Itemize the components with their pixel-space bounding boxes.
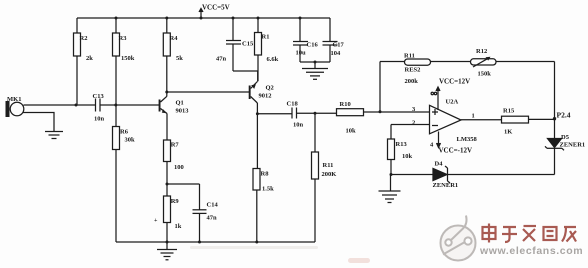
resistor R15 — [502, 108, 529, 136]
svg-text:www.elecfans.com: www.elecfans.com — [479, 245, 583, 257]
svg-text:VCC=5V: VCC=5V — [202, 4, 230, 12]
resistor R1 — [255, 17, 279, 64]
capacitor C18 — [257, 101, 303, 129]
svg-text:C14: C14 — [207, 202, 219, 209]
svg-text:R2: R2 — [80, 35, 88, 42]
wire Q2 emitter — [257, 71, 259, 82]
svg-text:P2.4: P2.4 — [557, 111, 571, 120]
wire R7 to C14 — [167, 183, 200, 185]
capacitor C15 — [216, 17, 254, 72]
resistor R10 — [337, 101, 364, 135]
svg-text:R9: R9 — [171, 198, 180, 205]
svg-text:R8: R8 — [261, 171, 270, 178]
svg-text:10k: 10k — [402, 153, 413, 160]
capacitor C14 — [193, 184, 219, 242]
wire R9 bottom — [166, 223, 168, 243]
wire D5 bottom — [554, 148, 556, 174]
wire top power rail — [77, 17, 330, 19]
wire R2 bottom — [76, 56, 78, 105]
resistor R13 — [388, 125, 430, 161]
transistor Q2 — [249, 82, 274, 104]
svg-text:6.6k: 6.6k — [267, 56, 279, 63]
svg-text:1.5k: 1.5k — [262, 186, 274, 193]
watermark characters — [483, 224, 577, 243]
wire R7 bottom — [166, 162, 169, 197]
wire mic signal — [24, 104, 96, 107]
wire R10 to op-amp — [364, 110, 430, 113]
wire R12 to right — [496, 61, 555, 63]
svg-text:ZENER1: ZENER1 — [433, 182, 459, 189]
resistor R7 — [164, 140, 184, 171]
resistor R8 — [253, 169, 274, 193]
wire bottom rail — [116, 241, 315, 244]
wire Q2 collector — [256, 103, 259, 169]
svg-text:C15: C15 — [242, 41, 254, 48]
wire R11 bottom — [314, 179, 316, 242]
wire feedback left — [379, 62, 381, 112]
wire C15 R1 bottom — [233, 55, 258, 81]
wire C18 to R10 — [297, 112, 337, 115]
wire Q1 emitter — [166, 114, 168, 141]
wire right column — [554, 62, 556, 119]
resistor R2 — [74, 18, 94, 62]
wire feedback top left — [380, 61, 405, 63]
pin 1 — [472, 113, 475, 120]
wire R6 bottom — [115, 150, 117, 243]
wire mic return — [23, 113, 55, 132]
svg-text:D4: D4 — [435, 161, 444, 168]
svg-text:9013: 9013 — [176, 108, 190, 115]
power VCC=5V — [199, 4, 230, 20]
transistor Q1 — [159, 96, 190, 114]
pin 8 — [431, 92, 437, 94]
resistor R3 — [113, 17, 135, 63]
svg-text:47n: 47n — [207, 215, 218, 222]
wire Q1 to Q2 base — [167, 91, 249, 93]
svg-text:R13: R13 — [396, 141, 408, 148]
pin 2 — [412, 120, 415, 127]
resistor R9 — [154, 196, 182, 230]
node P2.4 — [553, 111, 571, 121]
svg-text:Q2: Q2 — [266, 85, 274, 92]
potentiometer R12 — [471, 48, 497, 78]
wire R11 to R12 — [431, 61, 471, 63]
svg-text:ZENER1: ZENER1 — [560, 142, 586, 149]
svg-text:Q1: Q1 — [176, 100, 184, 107]
svg-text:10n: 10n — [293, 122, 304, 129]
svg-text:R4: R4 — [170, 35, 179, 42]
svg-text:U2A: U2A — [446, 99, 459, 106]
svg-text:9012: 9012 — [259, 93, 272, 100]
power VCC=-12V pin 4 — [430, 132, 472, 155]
svg-text:10n: 10n — [94, 116, 105, 123]
svg-text:47n: 47n — [216, 56, 227, 63]
pin 3 — [412, 106, 416, 113]
wire R8 bottom — [256, 190, 258, 242]
svg-text:R11: R11 — [323, 162, 334, 169]
svg-text:2: 2 — [412, 120, 415, 127]
svg-text:150k: 150k — [478, 71, 492, 78]
capacitor C13 — [93, 93, 105, 123]
resistor R4 — [163, 17, 183, 63]
watermark url — [479, 245, 583, 257]
wire R13 bottom — [390, 160, 393, 177]
op-amp U2A — [430, 99, 478, 144]
resistor R11 vertical — [312, 113, 337, 179]
ground bottom — [157, 242, 177, 260]
wire D4 to right — [448, 174, 555, 176]
svg-text:150k: 150k — [121, 55, 135, 62]
svg-text:4: 4 — [430, 142, 434, 149]
zener D5 — [545, 119, 585, 151]
svg-text:5k: 5k — [176, 55, 183, 62]
svg-text:R6: R6 — [120, 129, 129, 136]
svg-text:2k: 2k — [86, 55, 93, 62]
resistor R6 — [113, 105, 136, 150]
svg-text:VCC=-12V: VCC=-12V — [439, 147, 473, 155]
svg-text:200K: 200K — [322, 171, 337, 178]
capacitor C16 — [293, 17, 318, 63]
svg-text:VCC=12V: VCC=12V — [439, 78, 470, 86]
svg-text:30k: 30k — [125, 137, 136, 144]
svg-text:10k: 10k — [346, 128, 357, 135]
svg-text:R15: R15 — [503, 108, 515, 115]
svg-text:C16: C16 — [307, 42, 319, 49]
svg-text:1k: 1k — [175, 223, 182, 230]
wire C13 to Q1 base — [100, 104, 159, 107]
svg-text:104: 104 — [331, 50, 342, 57]
svg-text:R12: R12 — [476, 48, 487, 55]
svg-text:R1: R1 — [262, 34, 270, 41]
watermark logo — [441, 216, 476, 261]
svg-text:1K: 1K — [504, 129, 512, 136]
wire op-amp output — [461, 119, 502, 121]
svg-text:RES2: RES2 — [405, 67, 421, 74]
zener D4 — [391, 161, 458, 190]
svg-text:100: 100 — [174, 164, 184, 171]
ground under MK1 — [45, 132, 63, 139]
svg-text:D5: D5 — [561, 134, 570, 141]
svg-text:C17: C17 — [333, 42, 345, 49]
wire Q1 collector — [165, 56, 168, 96]
ground under R13 — [379, 175, 401, 203]
svg-text:200k: 200k — [405, 78, 419, 85]
svg-text:10u: 10u — [296, 50, 307, 57]
wire R3 bottom — [115, 56, 117, 105]
svg-text:R7: R7 — [171, 142, 180, 149]
microphone MK1 — [6, 96, 24, 117]
scan smudge — [190, 246, 370, 263]
resistor R11 RES2 — [404, 53, 431, 86]
svg-text:R10: R10 — [340, 101, 351, 108]
svg-text:+: + — [154, 218, 158, 224]
wire C16 C17 bottom — [300, 61, 330, 64]
svg-text:C18: C18 — [287, 101, 299, 108]
svg-text:1: 1 — [472, 113, 475, 120]
svg-text:C13: C13 — [93, 93, 105, 100]
svg-text:R3: R3 — [119, 35, 128, 42]
svg-text:LM358: LM358 — [457, 136, 478, 143]
svg-text:R11: R11 — [404, 53, 415, 60]
ground under C16 C17 — [302, 62, 328, 79]
wire R15 to P2.4 — [529, 118, 555, 120]
power VCC=12V — [436, 78, 470, 111]
capacitor C17 — [323, 18, 345, 62]
